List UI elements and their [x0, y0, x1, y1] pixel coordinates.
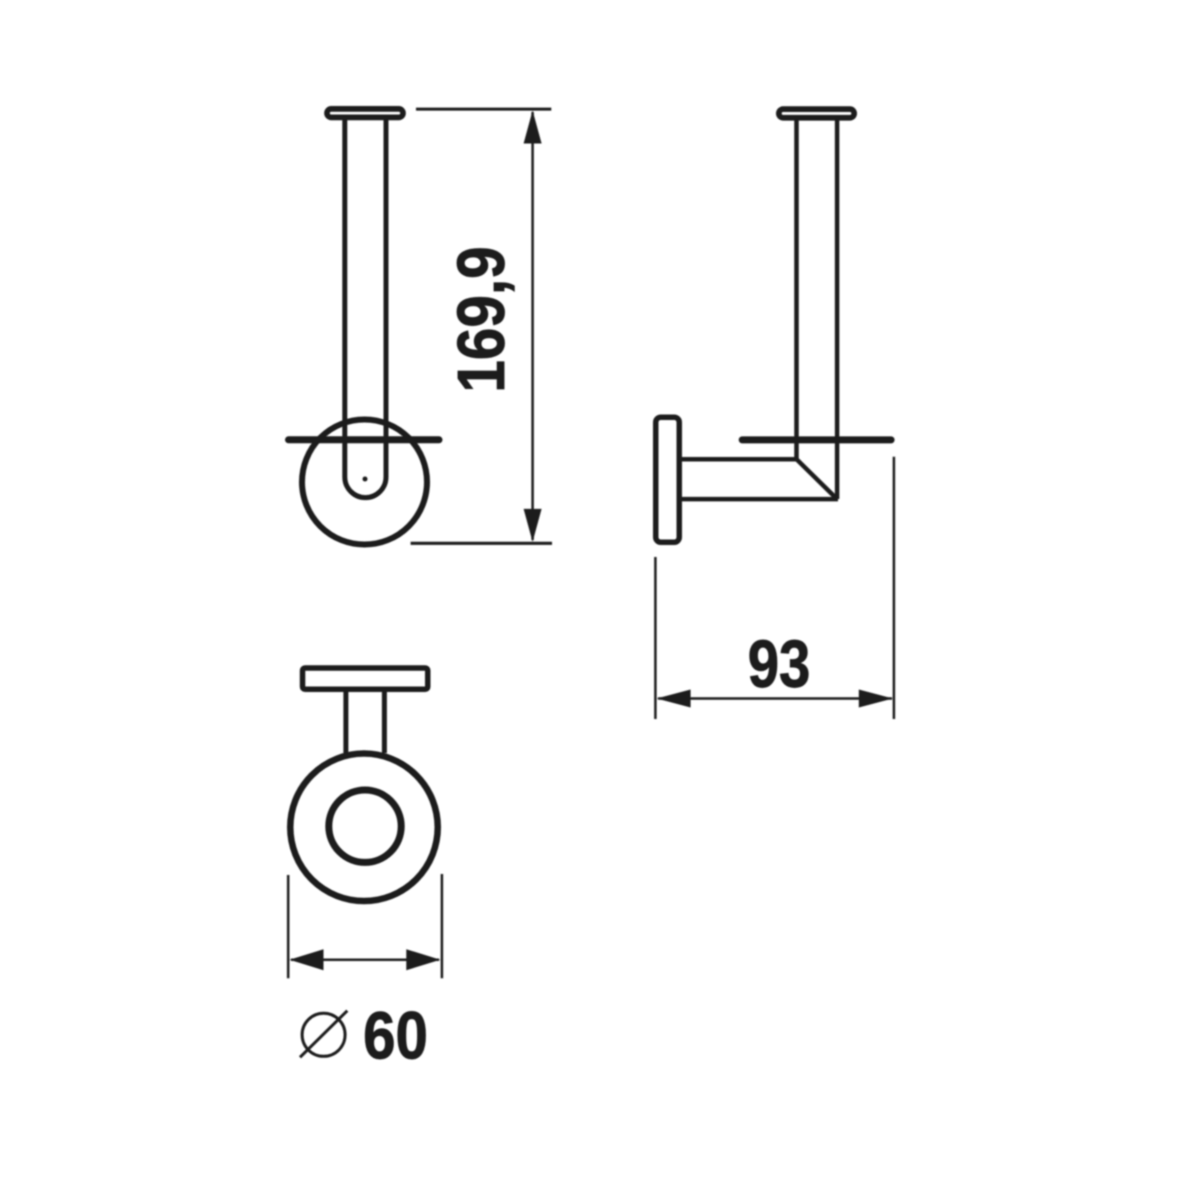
svg-text:169,9: 169,9 — [444, 246, 519, 392]
svg-text:60: 60 — [363, 999, 428, 1074]
svg-text:93: 93 — [748, 627, 811, 702]
